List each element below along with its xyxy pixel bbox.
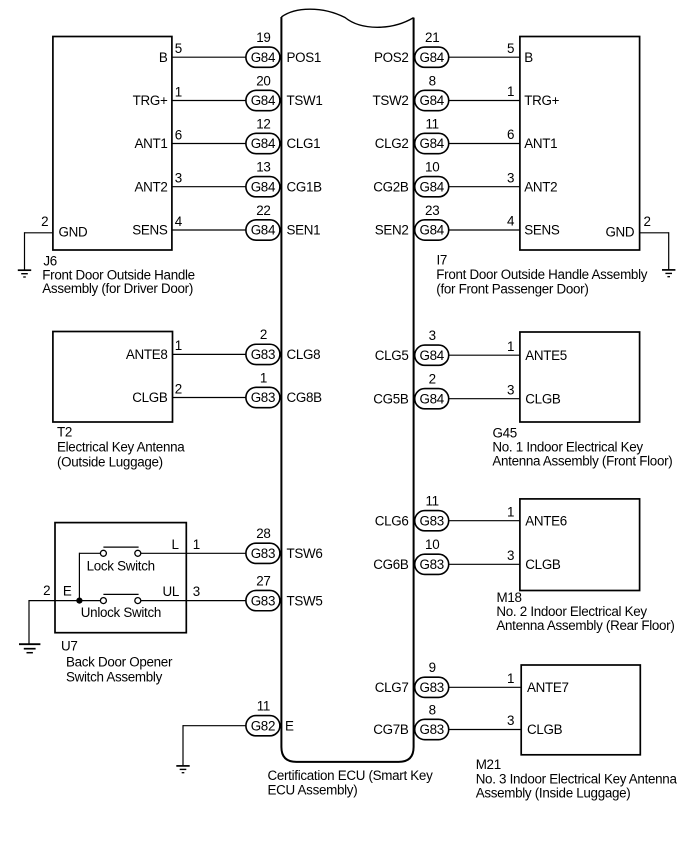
svg-text:SENS: SENS <box>132 223 168 238</box>
pin number 1 (I7) <box>507 84 514 99</box>
front door outside handle assembly (driver) box J6 <box>53 37 172 251</box>
junction node E <box>76 598 82 604</box>
svg-text:CLGB: CLGB <box>525 557 561 572</box>
ECU terminal label SEN1 <box>287 223 321 238</box>
J6 GND terminal label <box>59 224 88 239</box>
svg-text:ANTE8: ANTE8 <box>126 347 168 362</box>
ground symbol (J6) <box>18 270 31 277</box>
svg-text:4: 4 <box>175 214 183 229</box>
pin number 2 (T2 CLGB) <box>175 381 182 396</box>
svg-text:CG1B: CG1B <box>287 179 323 194</box>
caption Certification ECU <box>268 768 434 797</box>
svg-text:Electrical Key Antenna: Electrical Key Antenna <box>57 440 185 455</box>
svg-text:G84: G84 <box>419 136 444 151</box>
svg-text:6: 6 <box>175 127 182 142</box>
svg-text:B: B <box>159 50 168 65</box>
svg-text:TSW6: TSW6 <box>287 546 323 561</box>
pin number 5 (J6 B) <box>175 41 182 56</box>
svg-text:6: 6 <box>507 127 514 142</box>
svg-text:2: 2 <box>41 214 48 229</box>
svg-text:CLG6: CLG6 <box>375 513 409 528</box>
connector G83 pin 8 (CG7B) <box>415 702 449 739</box>
wire G83 to M18 pin 3 <box>448 563 520 565</box>
ECU terminal label E <box>285 719 294 734</box>
svg-text:E: E <box>285 719 294 734</box>
svg-text:G84: G84 <box>419 50 444 65</box>
caption I7 <box>436 252 647 296</box>
svg-text:G83: G83 <box>251 546 275 561</box>
caption J6 <box>42 254 195 296</box>
svg-text:SENS: SENS <box>524 223 560 238</box>
svg-text:G83: G83 <box>419 513 443 528</box>
pin number 3 (U7 UL) <box>193 584 200 599</box>
connector G83 pin 2 (CLG8) <box>246 327 280 364</box>
caption T2 <box>57 425 185 470</box>
caption U7 <box>61 639 173 685</box>
svg-text:5: 5 <box>507 41 514 56</box>
no.1 indoor electrical key antenna box G45 <box>520 332 640 422</box>
Certification ECU (Smart Key ECU Assembly) body outline <box>281 9 413 762</box>
svg-text:G84: G84 <box>419 179 444 194</box>
connector G84 pin 23 (SEN2) <box>415 203 449 240</box>
svg-text:12: 12 <box>256 116 270 131</box>
svg-text:2: 2 <box>429 372 436 387</box>
svg-text:G84: G84 <box>419 93 444 108</box>
svg-text:3: 3 <box>507 170 514 185</box>
connector G84 pin 20 (TSW1) <box>246 73 280 110</box>
ECU terminal label CLG5 <box>375 348 409 363</box>
svg-text:G84: G84 <box>251 223 276 238</box>
I7 terminal label ANT1 <box>524 136 557 151</box>
I7 terminal label SENS <box>524 223 560 238</box>
svg-text:3: 3 <box>507 548 514 563</box>
caption M18 <box>496 590 674 633</box>
label Unlock Switch <box>81 605 161 620</box>
svg-text:13: 13 <box>256 160 270 175</box>
svg-text:M21: M21 <box>476 757 501 772</box>
svg-text:G84: G84 <box>251 50 276 65</box>
J6 terminal label ANT2 <box>134 179 167 194</box>
connector G83 pin 28 (TSW6) <box>246 526 280 563</box>
svg-text:B: B <box>524 50 533 65</box>
pin number 1 (T2 ANTE8) <box>175 338 182 353</box>
svg-text:ANT2: ANT2 <box>134 179 167 194</box>
wire T2 pin 1 to G83 (CLG8) <box>173 353 246 355</box>
I7 terminal label ANT2 <box>524 179 557 194</box>
connector G84 pin 19 (POS1) <box>246 30 280 67</box>
ECU terminal label CLG7 <box>375 680 409 695</box>
svg-text:CG7B: CG7B <box>373 722 409 737</box>
svg-text:2: 2 <box>43 583 50 598</box>
svg-text:G83: G83 <box>251 347 275 362</box>
wire G83 to M18 pin 1 <box>448 520 520 522</box>
ground symbol (U7) <box>19 644 40 653</box>
svg-text:(Outside Luggage): (Outside Luggage) <box>57 455 163 470</box>
svg-text:ANT1: ANT1 <box>524 136 557 151</box>
pin number 5 (I7) <box>507 41 514 56</box>
svg-text:Assembly (for Driver Door): Assembly (for Driver Door) <box>42 281 193 296</box>
M18 terminal label ANTE6 <box>525 513 567 528</box>
svg-text:Back Door Opener: Back Door Opener <box>66 655 173 670</box>
pin number 3 (J6 ANT2) <box>175 171 182 186</box>
U7 terminal label UL <box>162 584 179 599</box>
svg-text:Antenna Assembly (Front Floor): Antenna Assembly (Front Floor) <box>492 454 672 469</box>
ECU terminal label TSW2 <box>373 93 409 108</box>
ECU terminal label CG8B <box>287 390 323 405</box>
wire J6 pin 1 to G84 (TSW1) <box>172 100 246 102</box>
svg-text:GND: GND <box>59 224 88 239</box>
svg-text:21: 21 <box>425 30 439 45</box>
pin number 4 (J6 SENS) <box>175 214 183 229</box>
ECU terminal label TSW6 <box>287 546 323 561</box>
caption M21 <box>476 757 678 801</box>
wire J6 pin 4 to G84 (SEN1) <box>172 229 246 231</box>
pin number 4 (I7) <box>507 214 515 229</box>
connector G83 pin 9 (CLG7) <box>415 660 449 697</box>
svg-text:CLG5: CLG5 <box>375 348 409 363</box>
U7 terminal label L <box>171 537 178 552</box>
svg-text:8: 8 <box>429 73 436 88</box>
svg-text:CLG8: CLG8 <box>287 347 321 362</box>
svg-text:G83: G83 <box>419 722 443 737</box>
pin number 3 (G45 CLGB) <box>507 382 514 397</box>
svg-text:G83: G83 <box>251 593 275 608</box>
T2 terminal label CLGB <box>132 390 168 405</box>
svg-text:CG8B: CG8B <box>287 390 323 405</box>
connector G84 pin 10 (CG2B) <box>415 160 449 197</box>
M21 terminal label CLGB <box>527 722 563 737</box>
wire unlock switch to G83 pin 27 (TSW5) <box>141 600 246 602</box>
svg-text:ANTE7: ANTE7 <box>527 680 569 695</box>
svg-text:22: 22 <box>256 203 270 218</box>
svg-text:19: 19 <box>256 30 270 45</box>
svg-text:TRG+: TRG+ <box>524 93 559 108</box>
svg-text:Lock Switch: Lock Switch <box>87 558 155 573</box>
svg-text:1: 1 <box>507 504 514 519</box>
wire G84 to I7 pin 4 <box>448 229 520 231</box>
svg-text:TSW5: TSW5 <box>287 593 323 608</box>
svg-text:G83: G83 <box>419 680 443 695</box>
svg-text:No. 1 Indoor Electrical Key: No. 1 Indoor Electrical Key <box>492 440 643 455</box>
pin number 6 (I7) <box>507 127 514 142</box>
ECU terminal label CG5B <box>373 391 409 406</box>
connector G84 pin 3 (CLG5) <box>415 328 449 365</box>
ECU terminal label CG2B <box>373 179 409 194</box>
ECU terminal label CLG6 <box>375 513 409 528</box>
ECU terminal label POS1 <box>287 50 322 65</box>
svg-text:G84: G84 <box>251 136 276 151</box>
svg-text:Certification ECU (Smart Key: Certification ECU (Smart Key <box>268 768 434 783</box>
svg-text:28: 28 <box>256 526 270 541</box>
svg-text:I7: I7 <box>437 252 448 267</box>
ECU terminal label POS2 <box>374 50 409 65</box>
ECU terminal label CG6B <box>373 557 409 572</box>
wire lock switch to G83 pin 28 (TSW6) <box>141 552 246 554</box>
front door outside handle assembly (passenger) box I7 <box>520 37 640 251</box>
ECU terminal label TSW5 <box>287 593 323 608</box>
wire G84 to G45 pin 1 <box>448 354 520 356</box>
svg-text:M18: M18 <box>497 590 522 605</box>
svg-text:11: 11 <box>426 116 439 131</box>
pin number 1 (U7 L) <box>193 537 200 552</box>
svg-text:Front Door Outside Handle Asse: Front Door Outside Handle Assembly <box>436 267 647 282</box>
svg-text:GND: GND <box>605 224 634 239</box>
connector G84 pin 11 (CLG2) <box>415 116 449 153</box>
wire ground to unlock switch <box>29 600 100 602</box>
J6 terminal label SENS <box>132 223 168 238</box>
pin number 3 (M21 CLGB) <box>507 713 514 728</box>
svg-text:G83: G83 <box>419 557 443 572</box>
svg-text:POS1: POS1 <box>287 50 322 65</box>
ECU terminal label CG1B <box>287 179 323 194</box>
svg-text:CG6B: CG6B <box>373 557 409 572</box>
svg-text:UL: UL <box>162 584 179 599</box>
pin number 1 (M21 ANTE7) <box>507 671 514 686</box>
T2 terminal label ANTE8 <box>126 347 168 362</box>
svg-text:3: 3 <box>507 713 514 728</box>
svg-text:27: 27 <box>256 573 270 588</box>
svg-text:G84: G84 <box>419 223 444 238</box>
svg-text:G84: G84 <box>251 179 276 194</box>
svg-text:No. 3 Indoor Electrical Key An: No. 3 Indoor Electrical Key Antenna <box>476 771 678 786</box>
label Lock Switch <box>87 558 155 573</box>
svg-text:9: 9 <box>429 660 436 675</box>
svg-text:L: L <box>171 537 178 552</box>
svg-text:1: 1 <box>507 84 514 99</box>
ground symbol (I7) <box>662 270 675 277</box>
electrical key antenna box T2 <box>53 332 173 423</box>
ECU terminal label TSW1 <box>287 93 323 108</box>
connector G83 pin 11 (CLG6) <box>415 494 449 531</box>
svg-text:ANTE6: ANTE6 <box>525 513 567 528</box>
G45 terminal label CLGB <box>525 391 561 406</box>
I7 GND terminal label <box>605 224 634 239</box>
svg-text:3: 3 <box>429 328 436 343</box>
svg-text:11: 11 <box>257 699 270 714</box>
svg-text:G84: G84 <box>251 93 276 108</box>
svg-text:G45: G45 <box>493 426 517 441</box>
I7 terminal label TRG+ <box>524 93 559 108</box>
svg-text:CLGB: CLGB <box>527 722 563 737</box>
connector G84 pin 12 (CLG1) <box>246 116 280 153</box>
svg-text:23: 23 <box>425 203 439 218</box>
svg-text:1: 1 <box>507 339 514 354</box>
pin number 2 (I7 GND) <box>644 214 651 229</box>
svg-text:1: 1 <box>193 537 200 552</box>
svg-text:3: 3 <box>175 171 182 186</box>
svg-text:SEN2: SEN2 <box>375 223 409 238</box>
ECU terminal label CLG2 <box>375 136 409 151</box>
svg-text:Unlock Switch: Unlock Switch <box>81 605 161 620</box>
svg-text:G82: G82 <box>251 718 275 733</box>
svg-text:1: 1 <box>260 370 267 385</box>
wire J6 pin 6 to G84 (CLG1) <box>172 143 246 145</box>
G45 terminal label ANTE5 <box>525 348 567 363</box>
connector G83 pin 1 (CG8B) <box>246 370 280 407</box>
connector G82 pin 11 (E) <box>246 699 280 736</box>
connector G84 pin 2 (CG5B) <box>415 372 449 409</box>
svg-text:G83: G83 <box>251 390 275 405</box>
svg-text:No. 2 Indoor Electrical Key: No. 2 Indoor Electrical Key <box>496 604 647 619</box>
pin number 1 (G45 ANTE5) <box>507 339 514 354</box>
svg-text:TSW1: TSW1 <box>287 93 323 108</box>
svg-text:CLG7: CLG7 <box>375 680 409 695</box>
svg-text:G84: G84 <box>419 348 444 363</box>
wire G83 to M21 pin 3 <box>448 729 521 731</box>
svg-text:E: E <box>63 583 72 598</box>
wire J6 pin 3 to G84 (CG1B) <box>172 186 246 188</box>
svg-text:10: 10 <box>425 160 439 175</box>
caption G45 <box>492 426 672 469</box>
svg-text:1: 1 <box>507 671 514 686</box>
svg-text:3: 3 <box>193 584 200 599</box>
unlock switch contacts <box>100 594 140 603</box>
svg-text:CG5B: CG5B <box>373 391 409 406</box>
svg-text:(for Front Passenger Door): (for Front Passenger Door) <box>436 282 588 297</box>
wire T2 pin 2 to G83 (CG8B) <box>173 397 246 399</box>
svg-text:Assembly (Inside Luggage): Assembly (Inside Luggage) <box>476 786 631 801</box>
connector G83 pin 10 (CG6B) <box>415 537 449 574</box>
svg-text:5: 5 <box>175 41 182 56</box>
wire I7 GND to ground <box>640 232 669 270</box>
svg-text:CLG1: CLG1 <box>287 136 321 151</box>
svg-text:U7: U7 <box>61 639 78 654</box>
no.3 indoor electrical key antenna box M21 <box>521 665 640 755</box>
svg-text:TRG+: TRG+ <box>133 93 168 108</box>
svg-text:2: 2 <box>644 214 651 229</box>
svg-text:T2: T2 <box>57 425 72 440</box>
svg-text:TSW2: TSW2 <box>373 93 409 108</box>
svg-text:1: 1 <box>175 84 182 99</box>
connector G83 pin 27 (TSW5) <box>246 573 280 610</box>
svg-text:SEN1: SEN1 <box>287 223 321 238</box>
ECU terminal label CLG8 <box>287 347 321 362</box>
svg-text:20: 20 <box>256 73 270 88</box>
svg-text:2: 2 <box>260 327 267 342</box>
svg-text:Antenna Assembly (Rear Floor): Antenna Assembly (Rear Floor) <box>496 618 674 633</box>
pin number 1 (J6 TRG+) <box>175 84 182 99</box>
svg-text:1: 1 <box>175 338 182 353</box>
pin number 2 (U7 E) <box>43 583 50 598</box>
ECU terminal label CG7B <box>373 722 409 737</box>
wire U7 E to ground <box>28 600 30 644</box>
svg-text:11: 11 <box>426 494 439 509</box>
ECU terminal label SEN2 <box>375 223 409 238</box>
wire G84 to I7 pin 1 <box>448 100 520 102</box>
svg-text:10: 10 <box>425 537 439 552</box>
J6 terminal label B <box>159 50 168 65</box>
svg-text:4: 4 <box>507 214 515 229</box>
ECU terminal label CLG1 <box>287 136 321 151</box>
connector G84 pin 21 (POS2) <box>415 30 449 67</box>
wire J6 pin 5 to G84 (POS1) <box>172 56 246 58</box>
svg-text:ANT1: ANT1 <box>134 136 167 151</box>
svg-text:CG2B: CG2B <box>373 179 409 194</box>
wire ECU E to ground <box>183 725 246 765</box>
wire J6 GND to ground <box>25 232 53 270</box>
wire G84 to G45 pin 3 <box>448 398 520 400</box>
svg-text:ECU Assembly): ECU Assembly) <box>268 782 358 797</box>
svg-text:Switch Assembly: Switch Assembly <box>66 670 163 685</box>
wire E junction to lock switch <box>79 553 100 601</box>
svg-text:ANTE5: ANTE5 <box>525 348 567 363</box>
pin number 6 (J6 ANT1) <box>175 127 182 142</box>
connector G84 pin 13 (CG1B) <box>246 160 280 197</box>
pin number 1 (M18 ANTE6) <box>507 504 514 519</box>
no.2 indoor electrical key antenna box M18 <box>520 499 640 591</box>
U7 terminal label E <box>63 583 72 598</box>
svg-text:POS2: POS2 <box>374 50 409 65</box>
M18 terminal label CLGB <box>525 557 561 572</box>
svg-text:2: 2 <box>175 381 182 396</box>
lock switch contacts <box>100 547 140 556</box>
wire G83 to M21 pin 1 <box>448 686 521 688</box>
wire G84 to I7 pin 6 <box>448 143 520 145</box>
svg-text:3: 3 <box>507 382 514 397</box>
svg-text:ANT2: ANT2 <box>524 179 557 194</box>
svg-text:CLGB: CLGB <box>132 390 168 405</box>
pin number 3 (I7) <box>507 170 514 185</box>
pin number 2 (J6 GND) <box>41 214 48 229</box>
J6 terminal label ANT1 <box>134 136 167 151</box>
wire G84 to I7 pin 5 <box>448 56 520 58</box>
connector G84 pin 8 (TSW2) <box>415 73 449 110</box>
connector G84 pin 22 (SEN1) <box>246 203 280 240</box>
I7 terminal label B <box>524 50 533 65</box>
wire G84 to I7 pin 3 <box>448 186 520 188</box>
M21 terminal label ANTE7 <box>527 680 569 695</box>
svg-text:CLG2: CLG2 <box>375 136 409 151</box>
J6 terminal label TRG+ <box>133 93 168 108</box>
svg-text:G84: G84 <box>419 391 444 406</box>
svg-text:CLGB: CLGB <box>525 391 561 406</box>
pin number 3 (M18 CLGB) <box>507 548 514 563</box>
svg-text:8: 8 <box>429 702 436 717</box>
ground symbol (ECU E) <box>176 766 189 773</box>
back door opener switch assembly box U7 <box>55 523 186 633</box>
